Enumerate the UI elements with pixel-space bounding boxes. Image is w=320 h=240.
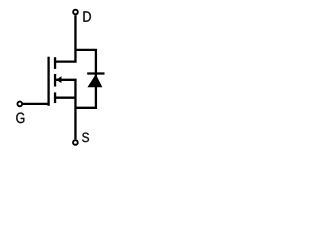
channel segment (source region) [54,92,56,103]
wire: body arm and source vertical line down to terminal S [54,80,75,140]
terminal S circle [73,140,78,145]
label G [16,113,24,124]
wire: body-diode branch (right, down, back left) [75,50,95,108]
body arrow pointing into channel [56,76,61,83]
gate bar of MOSFET [47,57,49,106]
channel segment (drain region) [54,57,56,69]
terminal G circle [17,102,22,107]
body diode triangle (pointing up) [87,74,102,87]
wire: gate lead from terminal G to gate bar [23,103,49,105]
N-channel MOSFET with body diode schematic [0,0,152,148]
wire: drain lead from terminal D down and arm left to channel top [54,15,75,61]
label S [82,133,89,143]
body diode cathode bar [87,72,104,74]
channel segment (body region) [54,74,56,87]
label D [83,11,90,21]
terminal D circle [73,10,78,15]
wire: source arm from channel bottom to source line [54,97,75,99]
